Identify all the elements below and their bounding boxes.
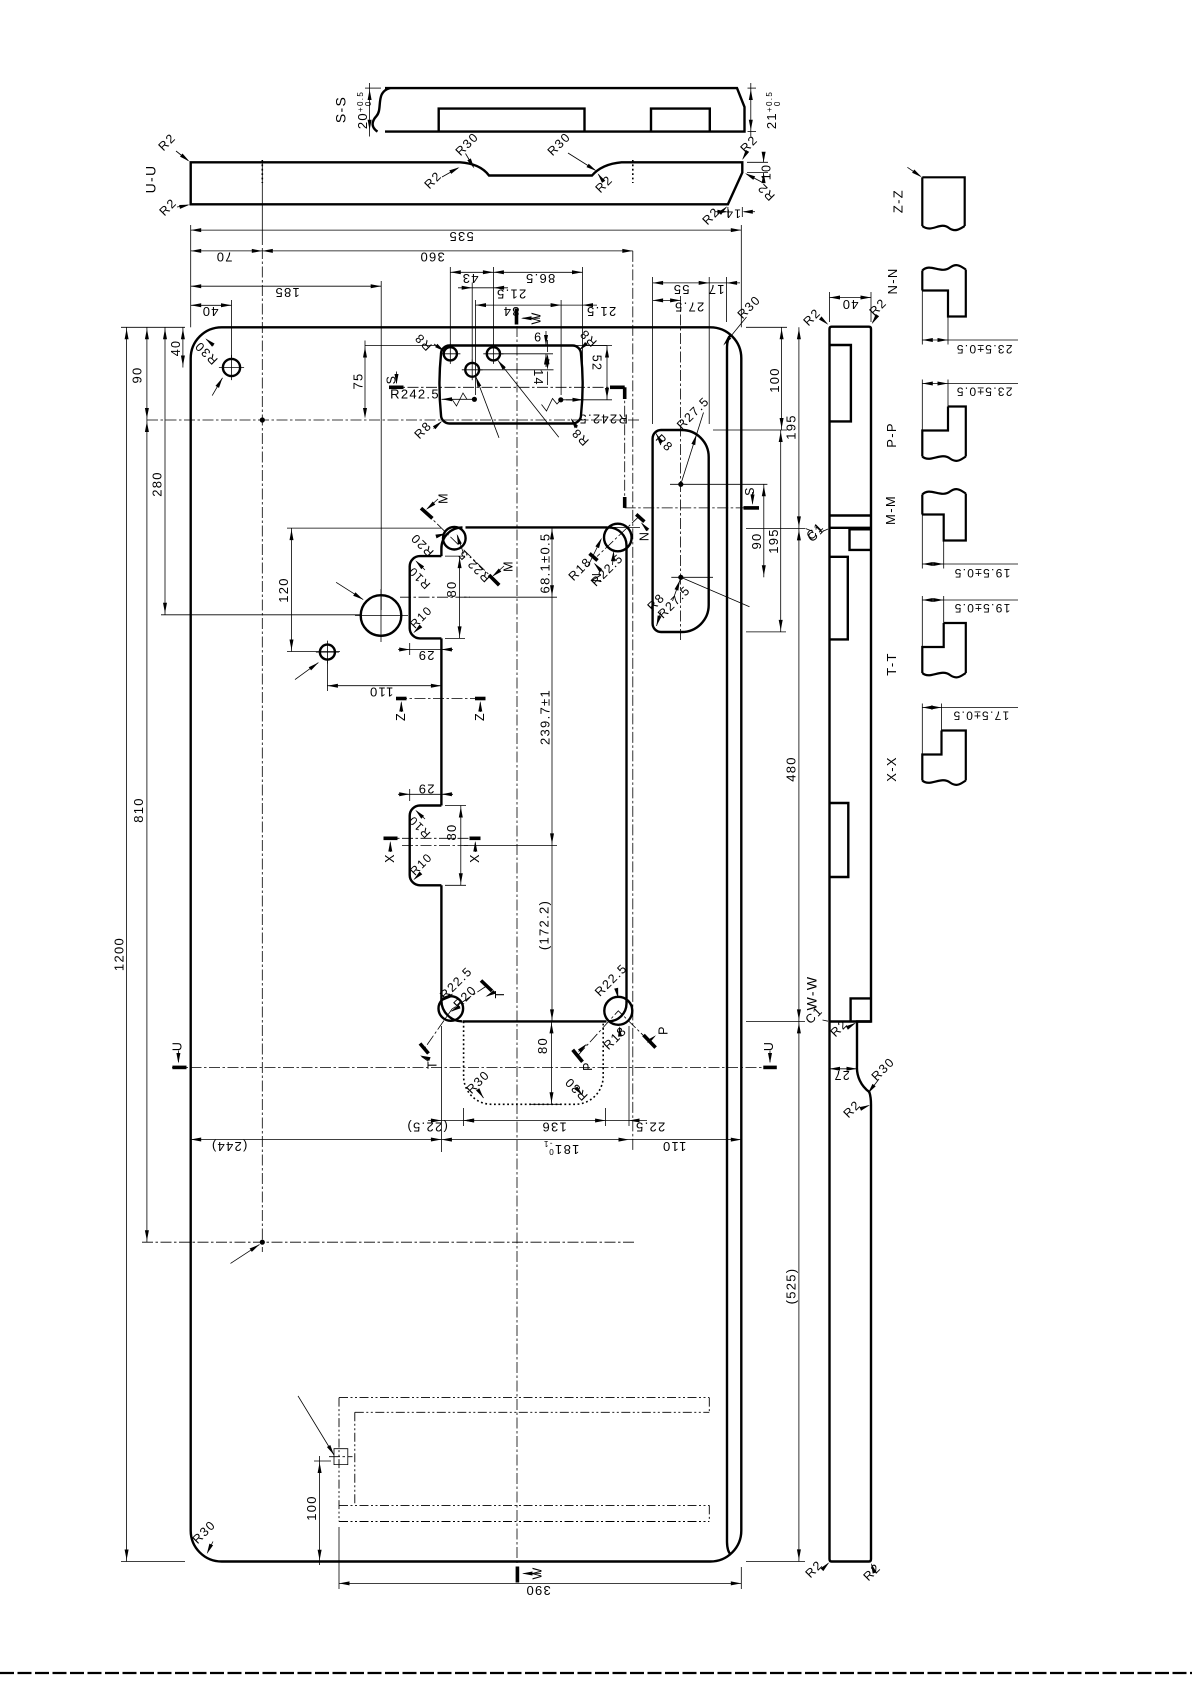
svg-text:43: 43 [461, 271, 478, 286]
dim 100 bottom left [319, 1456, 321, 1565]
svg-text:19.5±0.5: 19.5±0.5 [953, 566, 1010, 580]
dim 75 [365, 345, 436, 347]
svg-text:239.7±1: 239.7±1 [538, 689, 553, 745]
svg-text:23.5±0.5: 23.5±0.5 [955, 342, 1012, 356]
leader from lower slot point [681, 577, 750, 607]
svg-text:U: U [762, 1041, 776, 1051]
svg-text:535: 535 [448, 229, 474, 244]
svg-text:(525): (525) [784, 1268, 799, 1305]
svg-text:40: 40 [841, 297, 858, 312]
W-W left-edge rect notch2 [830, 803, 849, 877]
dim 68.1+-0.5 [555, 526, 640, 528]
svg-text:17: 17 [707, 282, 724, 297]
svg-text:T: T [493, 990, 507, 999]
dim 136 bottom [605, 1108, 607, 1126]
dim 29 notch2 [409, 789, 411, 801]
svg-text:Z: Z [473, 712, 487, 721]
svg-text:17.5±0.5: 17.5±0.5 [952, 709, 1009, 723]
sheet border dashed line bottom [0, 1672, 1192, 1674]
svg-text:75: 75 [351, 372, 366, 389]
svg-text:29: 29 [417, 782, 434, 797]
W-W marker top [515, 308, 519, 324]
svg-text:(244): (244) [211, 1139, 248, 1154]
M-M cutting line through top-left ear [424, 511, 496, 581]
screw hole c2 in upper cutout [465, 363, 479, 377]
svg-text:40: 40 [169, 340, 183, 357]
notch1 centerline [400, 596, 470, 598]
svg-text:40: 40 [201, 304, 218, 319]
svg-text:S: S [743, 486, 757, 496]
hidden datum tick right in U-U [632, 160, 634, 183]
svg-text:Z-Z: Z-Z [891, 189, 906, 213]
leader to big hole [336, 582, 363, 599]
svg-text:P-P: P-P [884, 422, 899, 448]
dim 185 [380, 281, 382, 610]
S-S pocket notch 2 [651, 109, 710, 132]
svg-text:29: 29 [417, 648, 434, 663]
X-X cutting line [384, 837, 481, 839]
dim (172.2) [551, 845, 553, 1021]
svg-text:14: 14 [531, 369, 545, 386]
corner ear circle bottom-left [439, 996, 464, 1021]
dim 390 bottom [338, 1527, 340, 1589]
svg-text:P: P [581, 1061, 595, 1071]
svg-text:110: 110 [662, 1139, 687, 1154]
corner ear circle R18/R22.5 top-right [604, 524, 632, 552]
svg-text:10: 10 [760, 164, 774, 181]
dim 120 [287, 527, 441, 529]
svg-text:360: 360 [419, 250, 445, 265]
W-W right-edge pocket rect lower [851, 998, 871, 1021]
svg-text:X-X: X-X [884, 756, 899, 782]
dim 110 [326, 660, 328, 691]
corner ear circle R18/R22.5 bottom-right [604, 997, 632, 1025]
dim 14 U-U [727, 207, 729, 217]
main plan view: table plate outline 1200x535 with R30 corners [191, 327, 742, 1561]
dim 9 [545, 331, 547, 346]
screw hole c3 in upper cutout [487, 347, 500, 360]
lateral datum chain line through groove area [142, 1241, 636, 1243]
svg-text:280: 280 [150, 471, 165, 497]
W-W full line at cutout bottom [830, 1020, 872, 1022]
leader to groove notch [298, 1396, 334, 1455]
longitudinal datum chain line at 360 [632, 251, 634, 1152]
svg-text:R242.5: R242.5 [578, 412, 628, 427]
upper cutout: rounded opening with R8 corners and R242.5 bulged sides [439, 346, 582, 424]
leader to corner hole [212, 378, 222, 396]
N-N cutting line through top-right ear [597, 516, 640, 557]
svg-text:22.5: 22.5 [635, 1120, 666, 1135]
svg-text:21.5: 21.5 [586, 304, 617, 319]
svg-text:U-U: U-U [143, 165, 159, 194]
dim 20 +0.5/0 S-S [369, 83, 371, 137]
svg-text:27: 27 [833, 1068, 850, 1082]
dim 239.7+-1 [551, 597, 553, 845]
svg-text:W: W [530, 311, 544, 324]
svg-text:90: 90 [130, 366, 145, 383]
slot centerline vertical [680, 296, 682, 640]
dim 70 [261, 160, 263, 245]
svg-text:390: 390 [525, 1583, 551, 1598]
big hole dia40 [361, 595, 402, 636]
svg-text:(172.2): (172.2) [537, 900, 552, 950]
W-W full line at cutout top [830, 514, 872, 516]
screw hole c1 in upper cutout [444, 347, 457, 360]
corner arc R20 top-left of central cutout [441, 527, 462, 548]
dim 21.5 right [561, 304, 597, 306]
svg-text:27.5: 27.5 [674, 300, 705, 315]
leader from hole c2 [476, 377, 499, 438]
small hole [320, 645, 335, 660]
corner ear circle R22.5 top-left [443, 527, 466, 550]
svg-text:T: T [426, 1060, 440, 1069]
svg-text:68.1±0.5: 68.1±0.5 [538, 533, 553, 594]
svg-text:1200: 1200 [112, 937, 127, 971]
svg-text:480: 480 [784, 756, 799, 782]
svg-text:70: 70 [215, 250, 232, 265]
svg-text:9: 9 [533, 330, 541, 344]
dim 80 notch2 [460, 806, 462, 886]
U-U section view bar with pocket recess [191, 162, 743, 204]
U-U cutting line [172, 1066, 777, 1068]
T-T cutting line through bottom-left ear [425, 986, 487, 1049]
dim 55 slot [652, 277, 654, 424]
svg-text:W: W [531, 1566, 545, 1579]
svg-text:90: 90 [749, 532, 764, 549]
central cutout left edge segments with notch openings [440, 552, 442, 557]
svg-text:80: 80 [444, 823, 459, 840]
P-P cutting line through bottom-right ear [578, 1011, 650, 1056]
svg-text:N: N [638, 531, 652, 541]
leader from hole c3 [498, 360, 559, 437]
svg-text:136: 136 [541, 1120, 567, 1135]
svg-text:80: 80 [535, 1037, 550, 1054]
svg-text:14: 14 [725, 207, 741, 221]
dim 80 notch1 [459, 556, 461, 638]
dim 480 right [798, 528, 800, 1021]
dim 40 vertical corner hole [182, 327, 184, 367]
W-W right-edge pocket rect upper [850, 529, 872, 550]
svg-text:195: 195 [766, 528, 781, 554]
central cutout bottom edge [463, 1020, 607, 1022]
W-W marker bottom [516, 1567, 520, 1583]
svg-text:P: P [657, 1025, 671, 1035]
svg-text:M: M [437, 492, 451, 504]
svg-text:X: X [383, 853, 397, 863]
svg-text:23.5±0.5: 23.5±0.5 [955, 385, 1012, 399]
svg-text:N-N: N-N [885, 267, 900, 294]
svg-text:185: 185 [274, 285, 300, 300]
dim 86.5 [582, 267, 584, 385]
dim 195 upper right [746, 527, 805, 529]
svg-text:T-T: T-T [884, 652, 899, 675]
svg-text:195: 195 [784, 414, 799, 440]
locating notch on groove left edge [334, 1449, 339, 1465]
dim 1200 overall length [126, 327, 128, 1561]
corner arc bottom-left of central cutout [441, 1001, 462, 1022]
dim 110 bottom [629, 1139, 741, 1141]
dim 360 [262, 250, 633, 252]
central cutout top edge [466, 526, 608, 528]
leader to small hole [295, 663, 318, 680]
lateral datum chain line at 90 from top [147, 419, 640, 421]
dim (22.5) bottom [440, 1026, 442, 1152]
dim 17 [726, 277, 728, 322]
central cutout right edge [625, 548, 627, 1000]
corner arc top-right of central cutout [609, 527, 627, 545]
svg-text:55: 55 [672, 282, 689, 297]
dim 27.5 [653, 299, 681, 301]
dim 52 [585, 345, 612, 347]
dim 90 left [146, 327, 148, 420]
W-W left-edge rect upper cutout [830, 345, 851, 421]
dim 84 between arc centers [475, 300, 477, 395]
dim 195 lower right (slot) [746, 631, 786, 633]
svg-text:R242.5: R242.5 [390, 387, 440, 402]
corner arc bottom-right of central cutout [609, 1004, 627, 1022]
dim 40 horizontal to corner hole [231, 300, 233, 358]
dim (525) right [798, 1021, 800, 1561]
dim 21 +0.5/0 S-S right [750, 83, 752, 137]
svg-text:U: U [171, 1041, 185, 1051]
right slot with R8 and R27.5 corners [653, 430, 709, 632]
corner hole top-left [223, 359, 240, 376]
slot datum point upper [678, 482, 683, 487]
dim 280 [164, 327, 166, 615]
longitudinal datum chain line at 70 from left edge [261, 248, 263, 1252]
svg-text:X: X [468, 853, 482, 863]
dim 535 overall width [190, 225, 192, 327]
svg-text:120: 120 [276, 577, 291, 603]
notch2 centerline [402, 844, 468, 846]
svg-text:(22.5): (22.5) [406, 1120, 448, 1135]
dim 22.5 bottom [628, 1026, 630, 1126]
dim 181 0/-1 bottom [441, 1139, 629, 1141]
dim 100 right [746, 326, 787, 328]
svg-text:80: 80 [444, 580, 459, 597]
slot datum point lower [678, 575, 683, 580]
svg-text:M-M: M-M [883, 495, 898, 525]
dim 43 [449, 267, 451, 346]
Z-Z cutting line [396, 698, 486, 700]
svg-text:52: 52 [590, 355, 604, 372]
W-W left-edge rect notch1 [830, 557, 848, 640]
dim 10 U-U [747, 161, 768, 163]
S-S pocket notch 1 [439, 109, 585, 132]
svg-text:100: 100 [767, 367, 782, 393]
dim 21.5 upper [471, 283, 473, 364]
svg-text:810: 810 [131, 797, 146, 823]
dim 14 [547, 340, 549, 352]
svg-text:86.5: 86.5 [525, 271, 556, 286]
S-S section view bar [385, 88, 745, 132]
hidden slot below cutout, dotted, R30 corners [464, 1021, 604, 1104]
dim 90 slot points [763, 484, 765, 577]
svg-text:21.5: 21.5 [496, 287, 527, 302]
hidden datum tick left in U-U [261, 160, 263, 183]
dim 80 below cutout [551, 1021, 553, 1104]
svg-text:19.5±0.5: 19.5±0.5 [953, 601, 1010, 615]
leader to datum point [231, 1245, 260, 1264]
W-W section bar outline [830, 327, 872, 1562]
dim 29 notch1 [409, 643, 411, 655]
inner right edge line (stepped edge of plate) [727, 335, 731, 1555]
dim (244) [191, 1139, 442, 1141]
underside groove outline, chain lines, C-shape [339, 1397, 709, 1399]
dim 27 W-W [830, 1068, 858, 1070]
S-S cutting line stepped [389, 386, 613, 388]
dim 810 [146, 420, 148, 1242]
left notch 1 (80 wide, R10 corners) [410, 556, 442, 638]
dim 40 W-W [829, 292, 831, 322]
svg-text:110: 110 [369, 685, 394, 700]
svg-text:100: 100 [304, 1495, 319, 1521]
W-W cutting plane chain line [516, 326, 518, 1565]
left notch 2 (80 wide, R10 corners) [410, 806, 442, 886]
svg-text:S-S: S-S [333, 96, 349, 123]
svg-text:Z: Z [394, 712, 408, 721]
